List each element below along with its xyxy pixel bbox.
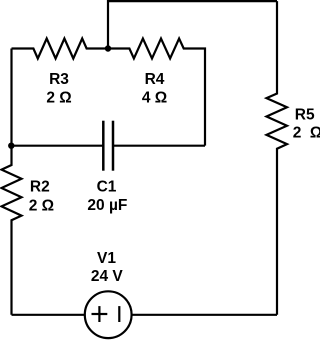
capacitor C1 plates xyxy=(103,121,113,171)
svg-text:2 Ω: 2 Ω xyxy=(29,198,54,215)
svg-text:20 µF: 20 µF xyxy=(87,197,127,214)
svg-text:Ω: Ω xyxy=(310,125,320,142)
voltage source V1 body xyxy=(85,291,132,338)
svg-text:C1: C1 xyxy=(97,179,117,196)
svg-text:R4: R4 xyxy=(145,71,165,88)
resistor R3 xyxy=(12,39,109,59)
wire: capacitor row left segment xyxy=(12,145,104,147)
svg-text:R3: R3 xyxy=(49,71,69,88)
svg-text:4 Ω: 4 Ω xyxy=(142,89,167,106)
svg-text:2 Ω: 2 Ω xyxy=(46,89,71,106)
wire: left vertical with R2 xyxy=(2,49,22,315)
svg-text:2: 2 xyxy=(293,125,302,142)
wire: top branch from junction up and across to right xyxy=(108,1,277,48)
svg-text:24 V: 24 V xyxy=(91,268,124,285)
resistor R5 xyxy=(267,1,288,315)
svg-text:R5: R5 xyxy=(295,106,315,123)
V1 plus sign xyxy=(92,306,120,322)
svg-text:V1: V1 xyxy=(97,250,116,267)
svg-text:R2: R2 xyxy=(30,179,50,196)
wire: bottom right segment xyxy=(132,314,277,316)
wire: capacitor row right segment xyxy=(113,145,205,147)
node B: junction dot left wire/cap wire xyxy=(8,143,14,149)
node A: junction dot R3/R4/top xyxy=(105,45,111,51)
V1 minus bar xyxy=(118,306,120,322)
resistor R4 xyxy=(108,39,205,146)
wire: bottom left segment xyxy=(12,314,86,316)
